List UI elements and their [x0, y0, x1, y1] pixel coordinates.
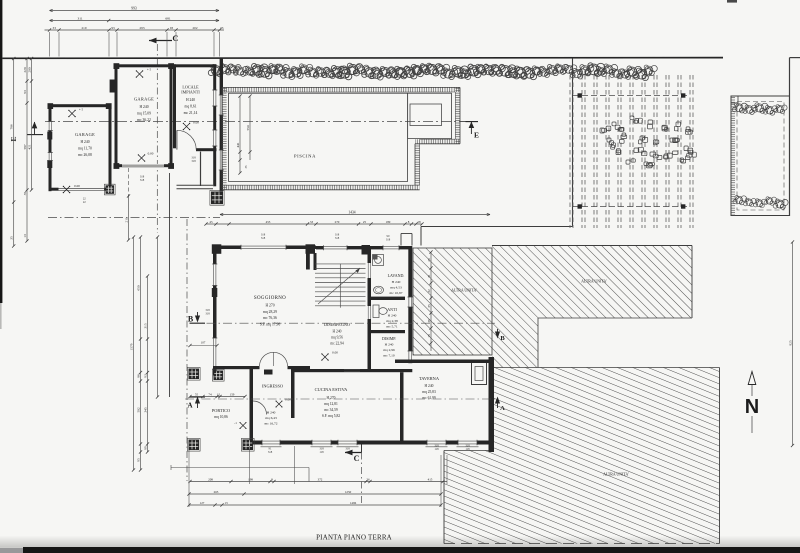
soggiorno top wall [213, 246, 316, 250]
pool tiled border band top [222, 87, 460, 92]
svg-text:0.00: 0.00 [193, 121, 199, 125]
svg-text:208: 208 [208, 477, 213, 481]
svg-text:99: 99 [143, 446, 147, 450]
lavanderia walls [368, 246, 372, 300]
top wall pilaster [362, 245, 371, 255]
svg-text:ALTRA UNITA': ALTRA UNITA' [451, 289, 477, 293]
svg-text:H 270: H 270 [327, 396, 336, 400]
house left dimension line 1579 [133, 237, 135, 470]
svg-text:0.00: 0.00 [332, 351, 338, 355]
hatch area altra unita lower [444, 368, 720, 544]
pool basin divider [407, 93, 409, 138]
svg-text:993: 993 [131, 6, 137, 10]
anti wc toilet [373, 305, 379, 318]
staircase treads [315, 264, 366, 306]
garage 2 door opening bottom [122, 164, 164, 168]
svg-text:B: B [188, 315, 194, 324]
svg-text:318: 318 [205, 312, 210, 316]
svg-text:93: 93 [170, 26, 174, 30]
path double wall to pool deck [177, 184, 214, 186]
right enclosure inner dashed boundary [737, 102, 784, 211]
property line vertical from garage corner [169, 173, 171, 397]
svg-text:220: 220 [23, 67, 27, 72]
deck south-east boundary lines [572, 58, 574, 226]
svg-text:TAVERNA: TAVERNA [419, 376, 440, 381]
soggiorno mid pilaster [212, 288, 218, 297]
right enclosure tick band left [731, 96, 735, 216]
soggiorno left wall [213, 246, 217, 376]
svg-text:CUCINA ESTIVA: CUCINA ESTIVA [315, 387, 349, 392]
stone cluster in pergola area [600, 116, 696, 168]
pool tiled border band right [455, 87, 460, 143]
svg-text:925: 925 [788, 340, 792, 345]
svg-text:IMPIANTI: IMPIANTI [181, 90, 200, 95]
top dimension line 993 [50, 10, 220, 12]
svg-text:25: 25 [363, 220, 367, 224]
svg-text:318: 318 [386, 238, 391, 242]
site boundary right enclosure corner [790, 57, 800, 59]
house left dimension line short [157, 237, 159, 397]
pool basin outline [229, 93, 452, 181]
svg-text:A: A [500, 405, 505, 412]
svg-text:55: 55 [195, 392, 199, 396]
section E arrow at pool [466, 121, 479, 123]
pool equipment grid square [211, 192, 223, 205]
bottom dim chain 208-198 [190, 481, 447, 483]
svg-text:421: 421 [27, 144, 31, 149]
house south wall [250, 441, 495, 445]
garage 1 lamp symbol 0.00 [64, 187, 70, 193]
svg-text:PISCINA: PISCINA [294, 154, 316, 159]
svg-text:118: 118 [319, 450, 324, 454]
svg-text:0.00: 0.00 [148, 152, 154, 156]
soggiorno right wall upper [306, 246, 310, 270]
svg-text:1434: 1434 [348, 210, 355, 214]
svg-text:H 240: H 240 [425, 384, 434, 388]
svg-text:+ 5: + 5 [79, 108, 84, 112]
svg-text:H 240: H 240 [267, 411, 276, 415]
svg-text:189: 189 [386, 220, 391, 224]
svg-text:N: N [745, 396, 759, 418]
svg-text:441: 441 [236, 142, 240, 147]
svg-text:74: 74 [208, 392, 212, 396]
section B mark right [497, 329, 499, 337]
garage 1 outline walls [49, 104, 112, 107]
svg-text:26: 26 [427, 258, 431, 262]
section E mark left margin [27, 134, 43, 136]
cucina top wall opening [344, 369, 360, 371]
svg-text:200: 200 [27, 67, 31, 72]
svg-text:86: 86 [136, 374, 140, 378]
svg-text:315: 315 [143, 323, 147, 328]
pool steps rectangle [410, 104, 442, 126]
bottom extension lines [188, 450, 190, 507]
svg-text:415: 415 [428, 477, 433, 481]
pool dim line 1434 [220, 214, 490, 216]
pool dim chain [206, 223, 422, 225]
svg-text:ALTRA UNITA': ALTRA UNITA' [581, 280, 607, 284]
bottom dim 127-13-1496 [189, 504, 441, 506]
svg-text:318: 318 [335, 236, 340, 240]
svg-text:28: 28 [417, 220, 421, 224]
top edge scan speck [727, 0, 737, 3]
svg-text:455: 455 [266, 220, 271, 224]
taverna east wall [489, 357, 495, 452]
svg-text:H 240: H 240 [385, 343, 394, 347]
svg-text:318: 318 [268, 450, 273, 454]
svg-text:93: 93 [111, 26, 115, 30]
house top wall centre section [316, 246, 412, 249]
site boundary wall top [2, 57, 723, 60]
property dash-dot line left-bottom of garages [48, 217, 220, 219]
section C dashed line upper [156, 44, 158, 233]
svg-text:26: 26 [366, 477, 370, 481]
svg-text:650: 650 [136, 285, 140, 290]
svg-text:H 240: H 240 [186, 98, 195, 102]
soggiorno corner pilasters [212, 244, 222, 254]
dash line left of house [186, 219, 188, 481]
locale impianti lamp symbol [184, 124, 190, 130]
disimp wall [368, 333, 372, 369]
right enclosure corner notch [731, 102, 738, 104]
house east wall upper [408, 246, 412, 363]
svg-text:293: 293 [140, 26, 145, 30]
house left dimension line 315-93-345 [147, 276, 149, 452]
svg-text:A: A [187, 402, 192, 410]
disimpegno lamp 0.00 [322, 354, 328, 360]
soggiorno top wall window [241, 245, 286, 249]
svg-text:219: 219 [82, 26, 87, 30]
scanner bottom black border [23, 547, 800, 553]
svg-text:33: 33 [53, 26, 57, 30]
scanner black edge strip left [0, 0, 2, 303]
pool tiled border band left [222, 87, 227, 189]
ingresso door arc [253, 401, 267, 415]
garage 2 outline walls [115, 64, 173, 67]
ingresso lamp 0.00 [276, 401, 282, 407]
top wall window right [383, 246, 399, 250]
svg-text:H 240: H 240 [139, 105, 148, 109]
hatch area altra unita upper small [413, 248, 492, 355]
svg-text:33: 33 [310, 220, 314, 224]
svg-text:SOGGIORNO: SOGGIORNO [254, 296, 286, 301]
pool deck edge wall [220, 58, 223, 191]
garage 1 left wall windows [48, 122, 52, 131]
anti wc walls [368, 300, 372, 333]
svg-text:202: 202 [193, 26, 198, 30]
locale impianti walls [173, 64, 176, 148]
deck wall openings [219, 95, 223, 115]
garage 1 door opening bottom [59, 187, 105, 191]
section A-A dash line [185, 398, 495, 400]
svg-text:H 240: H 240 [392, 280, 401, 284]
pergola horizontal tie dashed bottom [573, 206, 690, 208]
svg-text:554: 554 [246, 125, 250, 130]
svg-text:DISIMP.: DISIMP. [382, 336, 396, 341]
portico columns [189, 369, 200, 380]
svg-text:36: 36 [427, 319, 431, 323]
svg-text:35: 35 [427, 304, 431, 308]
svg-text:H 240: H 240 [80, 140, 89, 144]
garage 2 lamp symbol +5 [137, 71, 143, 77]
svg-text:318: 318 [261, 236, 266, 240]
south wall window sills [311, 446, 333, 448]
lavanderia washer [373, 255, 384, 266]
staircase direction arrow [318, 268, 360, 304]
garage bottom dim 211 [128, 196, 130, 240]
lavanderia sink [374, 286, 384, 294]
svg-text:211: 211 [124, 217, 128, 222]
section C mark bottom [345, 452, 362, 454]
svg-text:-1: -1 [234, 421, 237, 425]
svg-text:1250: 1250 [345, 490, 352, 494]
scanner bottom shading band [0, 0, 1, 1]
dim 107 under section B [190, 345, 217, 347]
svg-text:PIANTA PIANO TERRA: PIANTA PIANO TERRA [316, 535, 392, 542]
svg-text:13: 13 [224, 501, 228, 505]
top dimension line small chain [45, 29, 225, 31]
svg-text:INGRESSO: INGRESSO [262, 384, 283, 389]
soggiorno bottom wall [213, 366, 260, 369]
svg-text:B: B [500, 335, 505, 342]
svg-text:265: 265 [214, 490, 219, 494]
svg-text:+ 5: + 5 [147, 68, 152, 72]
svg-text:318: 318 [140, 178, 145, 182]
svg-text:E: E [474, 131, 479, 140]
right enclosure outer walls [731, 96, 790, 216]
svg-text:502: 502 [136, 407, 140, 412]
svg-text:198: 198 [248, 477, 253, 481]
bottom dim 265-1250 [189, 493, 441, 495]
svg-text:681: 681 [165, 16, 171, 20]
pool interior dim lines [239, 96, 241, 173]
svg-text:C: C [354, 454, 360, 463]
svg-text:318: 318 [191, 159, 196, 163]
svg-text:ANTI: ANTI [387, 307, 397, 312]
svg-text:H 240: H 240 [388, 314, 397, 318]
pool tiled border band mid step [415, 139, 460, 144]
svg-text:LAVAND.: LAVAND. [388, 273, 405, 278]
right enclosure hedge top [732, 103, 787, 115]
svg-text:C: C [172, 33, 178, 43]
svg-text:786: 786 [10, 124, 14, 129]
french door sill block [264, 370, 273, 375]
stair well wall [314, 253, 317, 270]
pool tiled border band inner vertical [415, 144, 420, 185]
svg-text:13: 13 [23, 234, 27, 238]
soggiorno left wall windows [213, 264, 217, 286]
left dimension line chain 2 [31, 59, 33, 191]
svg-text:587: 587 [23, 144, 27, 149]
svg-text:159: 159 [230, 392, 235, 396]
svg-text:95: 95 [136, 458, 140, 462]
pool tiled border band bottom [222, 185, 420, 190]
locale impianti door arc [177, 130, 196, 149]
north arrow [748, 372, 756, 385]
svg-text:345: 345 [143, 407, 147, 412]
left dimension line chain 1 [26, 59, 28, 242]
garage 1 lamp symbol +5 [69, 111, 75, 117]
right enclosure hedge bottom [733, 195, 788, 209]
svg-text:12: 12 [217, 392, 221, 396]
svg-text:0.00: 0.00 [74, 184, 80, 188]
svg-text:GARAGE: GARAGE [75, 132, 95, 137]
svg-text:118: 118 [465, 447, 470, 451]
svg-text:1496: 1496 [350, 501, 357, 505]
hedge row along top boundary [208, 63, 657, 81]
south wall door of ingresso [262, 440, 280, 444]
pergola dashed post rows [570, 75, 693, 228]
svg-text:PORTICO: PORTICO [212, 408, 230, 413]
left dimension line 786 [13, 59, 15, 247]
south wall windows [312, 440, 331, 444]
svg-text:107: 107 [201, 341, 206, 345]
svg-text:32: 32 [427, 289, 431, 293]
locale impianti right wall windows [213, 90, 217, 106]
svg-text:33: 33 [220, 26, 224, 30]
section C mark top [149, 40, 172, 42]
svg-text:31: 31 [427, 274, 431, 278]
svg-text:93: 93 [23, 90, 27, 94]
svg-text:311: 311 [77, 16, 82, 20]
svg-text:372: 372 [318, 477, 323, 481]
garage 1 corner pilasters [48, 103, 54, 109]
svg-text:45: 45 [209, 220, 213, 224]
portico pilaster at soggiorno corner [214, 371, 224, 381]
svg-text:118: 118 [434, 447, 439, 451]
svg-text:127: 127 [200, 501, 205, 505]
cucina top wall [295, 369, 413, 372]
svg-text:0.00: 0.00 [285, 398, 291, 402]
hatch area altra unita upper big [492, 246, 692, 319]
svg-text:GARAGE: GARAGE [134, 97, 154, 102]
ingresso walls [250, 369, 254, 445]
svg-text:270: 270 [335, 220, 340, 224]
french door to portico [260, 352, 274, 366]
svg-text:18: 18 [427, 334, 431, 338]
bottom connector line [171, 467, 309, 469]
dim line inside small hatch [430, 252, 432, 351]
svg-text:35: 35 [23, 192, 27, 196]
top wall window centre [324, 246, 348, 250]
section A mark right [497, 400, 499, 408]
garage 2 lamp symbol 0.00 [139, 155, 145, 161]
pergola horizontal tie dashed top [573, 95, 690, 97]
passage wall below locale [200, 152, 202, 186]
svg-text:H 270: H 270 [265, 304, 274, 308]
section B-B dash line [190, 322, 495, 324]
svg-text:35: 35 [10, 236, 14, 240]
top dimension line 311-681 [50, 20, 220, 22]
right dimension line 925 [792, 242, 794, 446]
svg-text:DISIMPEGNO: DISIMPEGNO [324, 322, 350, 327]
section E-E centerline through pool [45, 121, 460, 123]
top dim extension lines [49, 32, 51, 57]
svg-text:93: 93 [143, 374, 147, 378]
svg-text:ALTRA UNITA': ALTRA UNITA' [603, 473, 629, 477]
terrace step outline [401, 233, 412, 235]
taverna chimney recess [472, 363, 487, 385]
house left dimension line 650-86-502 [140, 237, 142, 470]
garage 2 centre dashed axis [127, 168, 129, 196]
portico lamp -1 [240, 423, 246, 429]
garage 1 bottom corner block [106, 185, 115, 194]
taverna top wall [395, 360, 494, 364]
cucina-taverna wall [400, 372, 404, 440]
svg-text:1579: 1579 [129, 343, 133, 350]
portico dim chain [190, 396, 245, 398]
garage 2 pilasters [114, 63, 120, 69]
svg-text:H 240: H 240 [333, 330, 342, 334]
